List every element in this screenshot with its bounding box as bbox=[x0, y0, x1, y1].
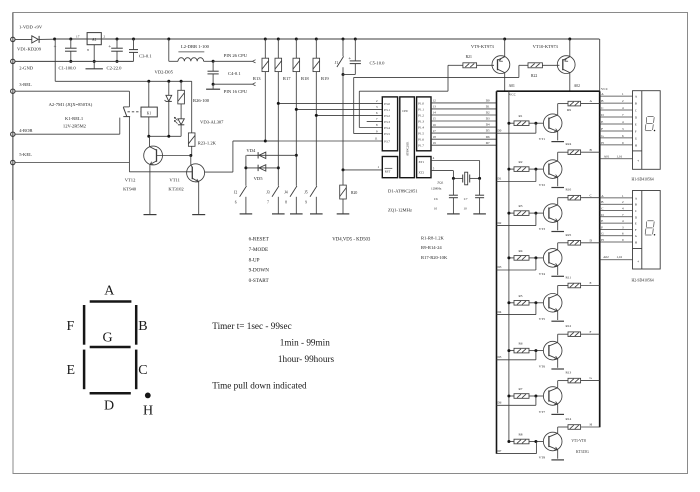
svg-text:P3.1: P3.1 bbox=[384, 108, 390, 112]
transistor VT3 bbox=[543, 204, 562, 223]
svg-text:D6: D6 bbox=[486, 135, 490, 139]
resistor R7 bbox=[509, 395, 514, 397]
display HG1 bbox=[633, 91, 661, 170]
ground C7 bbox=[473, 213, 486, 215]
svg-text:L2-DRR 1-100: L2-DRR 1-100 bbox=[181, 44, 210, 49]
svg-text:+: + bbox=[637, 159, 639, 163]
ground VT6 bbox=[551, 368, 564, 370]
svg-text:A02: A02 bbox=[603, 255, 609, 259]
svg-text:P3.4: P3.4 bbox=[384, 126, 390, 130]
svg-text:C: C bbox=[138, 363, 147, 378]
svg-text:R1: R1 bbox=[519, 114, 523, 118]
svg-text:R2: R2 bbox=[519, 160, 523, 164]
svg-text:E: E bbox=[635, 122, 637, 126]
svg-text:R7: R7 bbox=[519, 387, 523, 391]
transistor VT10 bbox=[557, 56, 575, 74]
ground VT5 bbox=[551, 320, 564, 322]
svg-text:R18: R18 bbox=[301, 76, 309, 81]
wire to PIN 16 CPU bbox=[213, 83, 252, 85]
svg-text:12MHz: 12MHz bbox=[431, 187, 442, 191]
capacitor C5 bbox=[354, 39, 356, 61]
resistor R5 bbox=[509, 302, 514, 304]
svg-text:PIN 16 CPU: PIN 16 CPU bbox=[224, 89, 248, 94]
svg-text:14: 14 bbox=[433, 111, 437, 115]
node base VT3 bbox=[534, 212, 537, 215]
wire sub-rail to K1 bbox=[148, 81, 150, 107]
svg-text:P1.5: P1.5 bbox=[418, 132, 424, 136]
diode VD4 bbox=[246, 154, 296, 156]
svg-text:8: 8 bbox=[285, 200, 287, 204]
wire D2 into block bbox=[497, 225, 536, 227]
svg-text:VCC: VCC bbox=[601, 87, 609, 91]
wire D1 into block bbox=[497, 181, 536, 183]
resistor R24 bbox=[558, 151, 568, 153]
wire A02 common bbox=[600, 259, 633, 261]
svg-text:D2: D2 bbox=[498, 221, 502, 225]
svg-text:E: E bbox=[635, 222, 637, 226]
svg-text:VT2: VT2 bbox=[539, 183, 546, 187]
inductor L2 bbox=[168, 39, 170, 61]
svg-text:D1-AT89C2051: D1-AT89C2051 bbox=[388, 189, 418, 194]
svg-text:VT3: VT3 bbox=[539, 227, 546, 231]
svg-text:E: E bbox=[601, 120, 603, 124]
junction dots node row bbox=[147, 135, 150, 138]
transistor VT11 bbox=[187, 164, 205, 182]
node J1/C5 bbox=[342, 73, 345, 76]
svg-text:D7: D7 bbox=[486, 141, 490, 145]
resistor R17 bbox=[277, 39, 279, 58]
transistor VT6 bbox=[543, 341, 562, 360]
wire P3.7 row bbox=[233, 140, 382, 142]
resistor R12 bbox=[558, 333, 568, 335]
node base VT2 bbox=[534, 168, 537, 171]
ground C4 bbox=[212, 84, 214, 89]
ground VT8 bbox=[551, 459, 564, 461]
display HG1 segment wires bbox=[600, 95, 633, 97]
display HG2 segment wires bbox=[600, 197, 633, 199]
segment F bar bbox=[83, 305, 86, 345]
terminal 2 GND bbox=[11, 59, 15, 63]
svg-text:A: A bbox=[104, 284, 115, 299]
capacitor C2 bbox=[116, 39, 118, 48]
svg-text:R3: R3 bbox=[519, 204, 523, 208]
svg-text:4-ROB: 4-ROB bbox=[19, 128, 32, 133]
svg-text:7-MODE: 7-MODE bbox=[249, 247, 269, 253]
svg-text:VD2-D05: VD2-D05 bbox=[155, 70, 174, 75]
svg-text:R6: R6 bbox=[519, 342, 523, 346]
svg-text:3-BEL: 3-BEL bbox=[19, 82, 32, 87]
svg-text:H1-SD410564: H1-SD410564 bbox=[632, 178, 654, 182]
IC XT cell bbox=[417, 157, 431, 178]
svg-text:12: 12 bbox=[433, 99, 437, 103]
transistor VT9 bbox=[492, 56, 510, 74]
svg-text:19: 19 bbox=[433, 141, 437, 145]
transistor VT2 bbox=[543, 160, 562, 179]
svg-text:F: F bbox=[601, 225, 603, 229]
node J3/VD5 bbox=[277, 166, 280, 169]
svg-text:Timer t= 1sec - 99sec: Timer t= 1sec - 99sec bbox=[212, 321, 291, 331]
capacitor C4 bbox=[212, 61, 214, 71]
svg-text:A01: A01 bbox=[509, 84, 515, 88]
svg-text:P1.6: P1.6 bbox=[418, 138, 424, 142]
wire node row bbox=[149, 135, 181, 137]
svg-text:R26-100: R26-100 bbox=[193, 98, 210, 103]
switch J3 bbox=[277, 197, 279, 214]
wire P3.4 to R21 bbox=[359, 90, 448, 92]
ground VT7 bbox=[551, 413, 564, 415]
voltage regulator A1 bbox=[87, 33, 101, 45]
switch J1 bbox=[342, 39, 344, 56]
transistor VT7 bbox=[543, 387, 562, 406]
svg-text:R9-R14-24: R9-R14-24 bbox=[421, 245, 442, 250]
svg-text:VCC: VCC bbox=[509, 92, 517, 96]
svg-text:P1.0: P1.0 bbox=[418, 101, 424, 105]
segment H dot bbox=[145, 393, 151, 399]
node L2/C4 bbox=[212, 60, 215, 63]
svg-text:13: 13 bbox=[433, 105, 437, 109]
svg-text:J5: J5 bbox=[304, 191, 307, 195]
resistor R21 bbox=[448, 64, 463, 66]
svg-text:D0: D0 bbox=[498, 128, 502, 132]
segment D bar bbox=[90, 392, 131, 395]
svg-text:R19: R19 bbox=[321, 76, 329, 81]
ground VT1 bbox=[551, 141, 564, 143]
svg-text:R10: R10 bbox=[566, 188, 572, 192]
wire RST row bbox=[343, 169, 382, 171]
svg-text:E: E bbox=[590, 281, 592, 285]
ground VT2 bbox=[551, 187, 564, 189]
segment B bar bbox=[135, 305, 138, 345]
node A1/GND rail bbox=[93, 60, 96, 63]
resistor R11 bbox=[558, 285, 568, 287]
wire T3 to contact bbox=[15, 90, 129, 92]
svg-text:VT1-VT8: VT1-VT8 bbox=[571, 439, 586, 443]
svg-text:VD4,VD5 - KD503: VD4,VD5 - KD503 bbox=[332, 237, 371, 242]
terminal 3 BEL bbox=[11, 89, 15, 93]
wire T1 to diode bbox=[15, 38, 32, 40]
switch J2 bbox=[245, 197, 247, 214]
svg-text:+: + bbox=[348, 56, 351, 62]
svg-text:D1: D1 bbox=[498, 177, 502, 181]
svg-text:VD5: VD5 bbox=[254, 176, 264, 181]
svg-text:R24: R24 bbox=[566, 142, 572, 146]
svg-text:8: 8 bbox=[87, 48, 89, 52]
ground VT11 bbox=[192, 214, 205, 216]
transistor VT5 bbox=[543, 294, 562, 313]
+9V sub-rail bbox=[55, 80, 192, 82]
svg-text:D4: D4 bbox=[498, 310, 502, 314]
svg-text:VT12: VT12 bbox=[125, 178, 136, 183]
svg-text:VD4: VD4 bbox=[246, 148, 256, 153]
svg-text:D6: D6 bbox=[498, 401, 502, 405]
resistor R9 bbox=[558, 103, 568, 105]
svg-text:7: 7 bbox=[267, 200, 269, 204]
wire +9V drop to sub-rail bbox=[54, 39, 56, 81]
svg-text:16: 16 bbox=[433, 123, 437, 127]
svg-text:A2-7M1 (JQX=850TA): A2-7M1 (JQX=850TA) bbox=[49, 102, 93, 107]
svg-text:0-START: 0-START bbox=[249, 278, 270, 284]
svg-text:R22: R22 bbox=[531, 74, 537, 78]
svg-text:5-KEL: 5-KEL bbox=[19, 152, 32, 157]
svg-text:C: C bbox=[635, 209, 637, 213]
svg-text:R12: R12 bbox=[566, 324, 572, 328]
resistor R6 bbox=[509, 350, 514, 352]
wire P3.5 to R22 bbox=[354, 76, 519, 78]
driver block top edge bbox=[497, 90, 601, 92]
svg-text:VD1-KD209: VD1-KD209 bbox=[17, 47, 42, 52]
svg-text:C4-0.1: C4-0.1 bbox=[228, 71, 241, 76]
node C4 bbox=[212, 83, 215, 86]
ground R20 bbox=[337, 213, 350, 215]
segment A bar bbox=[90, 300, 132, 303]
svg-text:D7: D7 bbox=[498, 449, 502, 453]
svg-text:2-GND: 2-GND bbox=[19, 65, 33, 70]
svg-text:J1: J1 bbox=[335, 61, 338, 65]
svg-text:F: F bbox=[67, 319, 75, 334]
svg-text:18: 18 bbox=[433, 135, 437, 139]
wire D5 into block bbox=[497, 359, 536, 361]
svg-text:10: 10 bbox=[434, 207, 438, 211]
svg-text:15: 15 bbox=[433, 117, 437, 121]
svg-text:1min - 99min: 1min - 99min bbox=[280, 338, 330, 348]
svg-text:P3.5: P3.5 bbox=[384, 132, 390, 136]
terminal 5 KEL bbox=[11, 160, 15, 164]
svg-text:R1-R8-1.2K: R1-R8-1.2K bbox=[421, 236, 445, 241]
ground J4 bbox=[290, 213, 303, 215]
svg-text:A01: A01 bbox=[604, 154, 610, 158]
VCC bus right bbox=[599, 39, 601, 91]
svg-text:C: C bbox=[635, 109, 637, 113]
svg-text:J4: J4 bbox=[284, 191, 287, 195]
GND rail bbox=[15, 60, 134, 62]
A1 ground pin wire bbox=[93, 45, 95, 69]
svg-text:P1.1: P1.1 bbox=[418, 107, 424, 111]
junction dots on +9V rail bbox=[53, 38, 56, 41]
svg-text:RST: RST bbox=[385, 169, 391, 173]
node C2/GND bbox=[116, 60, 119, 63]
transistor VT1 bbox=[543, 114, 562, 133]
svg-text:VD3-AL307: VD3-AL307 bbox=[200, 119, 224, 124]
ground VT4 bbox=[551, 275, 564, 277]
svg-text:F: F bbox=[601, 127, 603, 131]
svg-text:P1.2: P1.2 bbox=[418, 113, 424, 117]
wire T5 bbox=[15, 162, 129, 164]
svg-text:D0: D0 bbox=[486, 99, 490, 103]
wire R16 to P3.7 row bbox=[264, 72, 266, 141]
svg-text:J2: J2 bbox=[234, 191, 237, 195]
svg-text:P1.4: P1.4 bbox=[418, 126, 424, 130]
svg-text:J3: J3 bbox=[266, 191, 269, 195]
node base VT4 bbox=[534, 256, 537, 259]
svg-text:R17: R17 bbox=[283, 76, 291, 81]
ground J5 bbox=[310, 213, 323, 215]
resistor R4 bbox=[509, 257, 514, 259]
svg-text:C7: C7 bbox=[464, 197, 468, 201]
svg-text:R23-1.2K: R23-1.2K bbox=[198, 141, 217, 146]
inner VCC rail bbox=[508, 91, 510, 441]
switch J5 bbox=[315, 197, 317, 214]
dashed link contact to K1 bbox=[128, 111, 142, 113]
relay contact bbox=[128, 91, 130, 107]
resistor R20 bbox=[342, 170, 344, 185]
svg-text:VT6: VT6 bbox=[539, 365, 546, 369]
wire D3 into block bbox=[497, 269, 536, 271]
resistor R14 bbox=[558, 426, 568, 428]
transistor VT4 bbox=[543, 249, 562, 268]
wire VT11 collector to P3.7 row bbox=[205, 171, 233, 173]
svg-text:B: B bbox=[635, 102, 637, 106]
svg-text:XT2: XT2 bbox=[419, 170, 425, 174]
svg-text:A02: A02 bbox=[574, 84, 580, 88]
IC right cell bbox=[417, 97, 431, 151]
svg-text:C1-100.0: C1-100.0 bbox=[59, 66, 77, 71]
svg-text:6-RESET: 6-RESET bbox=[249, 236, 270, 242]
resistor R13 bbox=[558, 380, 568, 382]
resistor R18 bbox=[295, 39, 297, 58]
svg-text:E: E bbox=[67, 363, 76, 378]
resistor R2 bbox=[509, 168, 514, 170]
wire D0 into block bbox=[497, 132, 536, 134]
svg-text:KT3102: KT3102 bbox=[168, 187, 184, 192]
resistor R19 bbox=[315, 39, 317, 58]
node base VT5 bbox=[534, 301, 537, 304]
terminal 1 VDD +9V bbox=[11, 37, 15, 41]
svg-text:+: + bbox=[637, 260, 639, 264]
node base VT7 bbox=[534, 395, 537, 398]
svg-text:H: H bbox=[143, 404, 153, 419]
wire J2 column bbox=[245, 155, 247, 186]
svg-text:D5: D5 bbox=[486, 129, 490, 133]
display HG2 bbox=[633, 191, 661, 270]
svg-text:R17-R20-10K: R17-R20-10K bbox=[421, 255, 448, 260]
node C1/GND bbox=[69, 60, 72, 63]
zener diode VD2 bbox=[168, 81, 170, 95]
svg-text:R11: R11 bbox=[566, 276, 572, 280]
wire D7 into block bbox=[497, 453, 537, 455]
svg-text:D1: D1 bbox=[486, 105, 490, 109]
wire diode to +9V rail bbox=[39, 38, 55, 40]
resistor R16 bbox=[264, 39, 266, 58]
wire J1 to RST row bbox=[342, 75, 344, 170]
wire D6 into block bbox=[497, 404, 536, 406]
resistor R3 bbox=[509, 212, 514, 214]
svg-text:C6: C6 bbox=[434, 197, 438, 201]
node base VT6 bbox=[534, 349, 537, 352]
data bus wires D0-D7 bbox=[431, 102, 497, 104]
svg-text:VT7: VT7 bbox=[539, 410, 546, 414]
svg-text:VT1: VT1 bbox=[539, 137, 546, 141]
svg-text:R25: R25 bbox=[566, 233, 572, 237]
svg-text:R14: R14 bbox=[566, 417, 572, 421]
svg-text:H2-SD410564: H2-SD410564 bbox=[632, 279, 654, 283]
segment G bar bbox=[90, 346, 131, 349]
svg-text:1hour- 99hours: 1hour- 99hours bbox=[278, 354, 335, 364]
wire T5 to VT11 base bbox=[128, 163, 130, 172]
svg-text:CPU: CPU bbox=[402, 109, 409, 113]
svg-text:VT8: VT8 bbox=[539, 456, 546, 460]
left edge connector line bbox=[12, 13, 14, 201]
node R23/VT12 base bbox=[189, 154, 192, 157]
wire R19 column bbox=[315, 72, 317, 186]
svg-text:2: 2 bbox=[104, 35, 106, 39]
svg-text:D4: D4 bbox=[486, 123, 490, 127]
svg-text:A1: A1 bbox=[92, 38, 97, 42]
svg-text:VT9-KT973: VT9-KT973 bbox=[471, 44, 495, 49]
svg-text:D5: D5 bbox=[498, 355, 502, 359]
wire A01 common bbox=[600, 158, 633, 160]
ground C6 bbox=[447, 213, 460, 215]
wire P3.2 row bbox=[316, 114, 382, 116]
driver block left bus bbox=[496, 91, 498, 454]
wire XT1 to crystal right bbox=[431, 160, 480, 162]
node base VT8 bbox=[534, 440, 537, 443]
svg-text:R20: R20 bbox=[351, 191, 357, 195]
svg-text:R9: R9 bbox=[567, 108, 571, 112]
svg-text:C2-22.0: C2-22.0 bbox=[107, 66, 123, 71]
IC RST cell bbox=[382, 157, 397, 178]
svg-text:9-DOWN: 9-DOWN bbox=[249, 268, 270, 274]
wire R18 column bbox=[295, 72, 297, 186]
svg-text:R13: R13 bbox=[566, 371, 572, 375]
IC center cell bbox=[400, 97, 415, 178]
LED VD3 bbox=[180, 104, 182, 119]
ground J2 bbox=[240, 213, 253, 215]
capacitor C6 bbox=[452, 178, 454, 195]
resistor R22 bbox=[519, 64, 528, 66]
resistor R10 bbox=[558, 197, 568, 199]
svg-text:P3.7: P3.7 bbox=[384, 139, 390, 143]
svg-text:VT11: VT11 bbox=[169, 178, 180, 183]
capacitor C3 bbox=[133, 39, 135, 50]
svg-text:+: + bbox=[108, 44, 111, 50]
resistor R25 bbox=[558, 242, 568, 244]
svg-text:9: 9 bbox=[305, 200, 307, 204]
svg-text:ZQ1: ZQ1 bbox=[437, 181, 444, 185]
switch J4 bbox=[295, 197, 297, 214]
svg-text:P1.3: P1.3 bbox=[418, 119, 424, 123]
svg-text:1-VDD +9V: 1-VDD +9V bbox=[19, 25, 43, 30]
svg-text:KT940: KT940 bbox=[123, 187, 137, 192]
svg-text:11: 11 bbox=[375, 137, 378, 141]
wire to PIN 26 CPU bbox=[213, 60, 252, 62]
wire R17 column bbox=[277, 72, 279, 186]
+9V top rail bbox=[55, 38, 600, 40]
svg-text:R21: R21 bbox=[466, 55, 472, 59]
svg-text:P1.7: P1.7 bbox=[418, 144, 424, 148]
junction dots sub-rail bbox=[147, 80, 150, 83]
svg-text:R4: R4 bbox=[519, 249, 523, 253]
svg-text:P3.2: P3.2 bbox=[384, 114, 390, 118]
svg-text:D3: D3 bbox=[498, 265, 502, 269]
segment E bar bbox=[83, 350, 86, 390]
svg-text:P3.3: P3.3 bbox=[384, 120, 390, 124]
wire XT2 to crystal left bbox=[431, 170, 453, 172]
ground J3 bbox=[272, 213, 285, 215]
svg-text:B: B bbox=[635, 203, 637, 207]
ground VT3 bbox=[551, 231, 564, 233]
svg-text:E: E bbox=[601, 219, 603, 223]
wire P3.5 row bbox=[354, 133, 383, 135]
svg-text:AT89C2051: AT89C2051 bbox=[406, 141, 410, 156]
wire P3.4 row bbox=[359, 127, 382, 129]
svg-text:XT1: XT1 bbox=[419, 160, 425, 164]
resistor R8 bbox=[509, 441, 514, 443]
ground A1 bbox=[86, 68, 103, 70]
wire contact to T5 bbox=[128, 117, 130, 163]
svg-text:C5-10.0: C5-10.0 bbox=[370, 60, 386, 65]
svg-text:D3: D3 bbox=[486, 117, 490, 121]
svg-text:8-UP: 8-UP bbox=[249, 257, 260, 263]
